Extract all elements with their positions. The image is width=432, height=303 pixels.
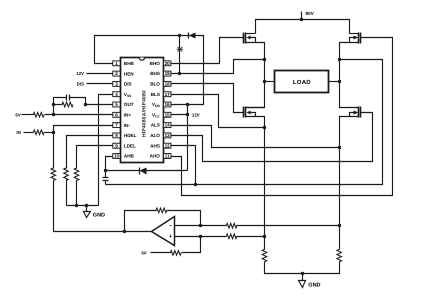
svg-text:5: 5: [115, 102, 118, 107]
wire ALS pin 14 to Q4 source: [171, 126, 340, 148]
pin 11 box: [164, 154, 171, 159]
wire BHO pin 20 to Q1 gate: [171, 38, 244, 64]
load box: [275, 71, 329, 93]
wire AHS net row to phase A: [106, 60, 383, 185]
svg-text:4: 4: [115, 92, 118, 97]
svg-text:6: 6: [115, 112, 118, 117]
wire cap branch right: [70, 98, 86, 105]
wire LDEL pin 9 to resistor: [77, 146, 113, 169]
wire Q2 source to phase A: [340, 43, 359, 108]
wire diode D2 anode to 12V: [147, 170, 188, 172]
wire LOAD right terminal: [330, 81, 340, 83]
node 6V/IN+ junction: [52, 113, 55, 116]
wire HDEL resistor to ground rail: [66, 181, 68, 206]
transistor Q1 (B high-side) body tie: [250, 38, 256, 43]
svg-text:HIP4080A/HIP4080: HIP4080A/HIP4080: [141, 90, 147, 137]
resistor R sense A (vertical): [337, 249, 342, 261]
node phase B / BHS tap: [263, 58, 266, 61]
pin 2 box: [113, 71, 120, 76]
wire IN resistor to node: [45, 132, 54, 134]
svg-text:80V: 80V: [306, 11, 315, 16]
wire bootstrap cap BHS: [179, 36, 181, 74]
node phase A / AHS tap: [338, 58, 341, 61]
pin 20 box: [164, 61, 171, 66]
wire LDEL resistor to ground rail: [76, 181, 78, 206]
pin 7 box: [113, 123, 120, 128]
svg-text:6V: 6V: [15, 112, 20, 117]
wire OUT row left segment: [54, 104, 63, 106]
node op-amp - tap: [338, 224, 341, 227]
wire 12V vertical: [187, 105, 189, 171]
pin 8 box: [113, 133, 120, 138]
wire minus input to sense A: [237, 225, 340, 227]
wire Q1 drain stub: [246, 33, 256, 35]
resistor R 6V ref: [170, 251, 181, 256]
pin 1 box: [113, 61, 120, 66]
node VDD/12V junction: [186, 103, 189, 106]
resistor R minus input: [226, 223, 237, 228]
svg-text:BHO: BHO: [150, 61, 161, 66]
svg-text:LDEL: LDEL: [124, 143, 136, 148]
svg-text:11: 11: [165, 154, 170, 159]
resistor R op-amp feedback: [156, 208, 167, 213]
wire 6V node to IN+ pin 6: [45, 114, 113, 116]
transistor Q1 (B high-side) channel bar: [245, 33, 247, 44]
resistor R HDEL delay (vertical): [64, 168, 69, 181]
svg-text:8: 8: [115, 133, 118, 138]
transistor Q2 (A high-side) gate bar: [360, 33, 362, 44]
svg-text:12V: 12V: [76, 71, 84, 76]
svg-text:HEN: HEN: [124, 71, 134, 76]
transistor Q2 (A high-side) body tie: [350, 38, 355, 43]
node plus input junction: [199, 235, 202, 238]
wire DIS to pin 3: [87, 83, 113, 85]
node ground stub junction: [85, 204, 88, 207]
pin 3 box: [113, 81, 120, 86]
transistor Q1 (B high-side) body arrow: [247, 36, 251, 40]
wire feedback resistor to op-amp output: [54, 181, 152, 232]
svg-text:15: 15: [165, 112, 171, 117]
node Q4 source / ALS tap: [338, 146, 341, 149]
diode D2 AHB bootstrap: [140, 168, 147, 175]
svg-text:1: 1: [115, 61, 118, 66]
wire diode D1 anode down to VDD pin 16: [171, 36, 204, 105]
pin 5 box: [113, 102, 120, 107]
wire Q2 drain stub: [350, 33, 359, 35]
wire LOAD left terminal: [265, 81, 275, 83]
resistor R IN series: [33, 130, 44, 135]
svg-text:17: 17: [165, 92, 171, 97]
wire BHS pin 19 to phase B: [171, 60, 265, 74]
wire 80V top rail: [256, 20, 350, 34]
svg-text:DIS: DIS: [77, 81, 84, 86]
node BHB/bootstrap junction: [178, 34, 181, 37]
wire 80V supply tick: [301, 12, 303, 20]
pin 15 box: [164, 112, 171, 117]
wire BLS pin 17 to Q3 source: [171, 95, 265, 128]
node VCC/12V junction: [186, 113, 189, 116]
svg-text:GND: GND: [308, 282, 320, 288]
wire 6V to resistor: [22, 114, 34, 116]
svg-text:19: 19: [165, 71, 171, 76]
wire Q3 drain stub (to phase B): [246, 107, 265, 109]
svg-text:2: 2: [115, 71, 118, 76]
ground symbol right: [299, 281, 306, 288]
wire 6V ref to resistor: [151, 252, 171, 254]
pin 18 box: [164, 81, 171, 86]
wire OUT pin 5 row: [86, 104, 113, 106]
wire BLO pin 18 to Q3 gate: [171, 84, 244, 113]
svg-text:IN: IN: [16, 130, 20, 135]
svg-text:BHB: BHB: [124, 61, 135, 66]
resistor R 6V bias: [33, 113, 44, 118]
svg-text:10: 10: [114, 154, 120, 159]
svg-text:13: 13: [165, 133, 171, 138]
svg-text:16: 16: [165, 102, 171, 107]
svg-text:12: 12: [165, 143, 171, 148]
resistor R sense B (vertical): [262, 249, 267, 261]
resistor R feedback (OUT row): [62, 102, 73, 107]
node 80V rail junction: [300, 18, 303, 21]
svg-text:BLO: BLO: [150, 82, 160, 87]
wire VCC pin 15 stub: [171, 114, 188, 116]
svg-text:ALS: ALS: [151, 123, 160, 128]
wire left ground rail: [67, 205, 99, 207]
capacitor C feedback plates: [67, 95, 70, 101]
wire OUT node to IN+ node: [53, 105, 55, 115]
svg-text:20: 20: [165, 61, 171, 66]
transistor Q2 (A high-side) channel bar: [358, 33, 360, 44]
resistor R LDEL delay (vertical): [74, 168, 79, 181]
op-amp U2 minus input mark: [170, 225, 172, 227]
svg-text:AHB: AHB: [124, 154, 135, 159]
wire op-amp feedback to minus input: [167, 211, 201, 226]
op-amp U2 triangle: [152, 217, 175, 246]
svg-text:DIS: DIS: [124, 82, 132, 87]
wire AHO pin 11 to Q2 gate: [171, 38, 393, 196]
wire Q1 source to phase B: [246, 43, 265, 108]
transistor Q4 (A low-side) channel bar: [358, 107, 360, 118]
node minus input junction: [199, 224, 202, 227]
wire right ground rail: [265, 262, 340, 274]
wire plus input to sense B: [237, 236, 265, 238]
capacitor C AHB bootstrap plates: [103, 178, 109, 181]
pin 12 box: [164, 143, 171, 148]
node IN- junction: [52, 131, 55, 134]
IC U1 top notch: [139, 58, 144, 61]
transistor Q3 (B low-side) body arrow: [247, 111, 251, 115]
transistor Q4 (A low-side) body tie: [350, 113, 355, 117]
svg-text:BHS: BHS: [150, 71, 160, 76]
pin 6 box: [113, 112, 120, 117]
node Q3 source / BLS tap: [263, 126, 266, 129]
pin 19 box: [164, 71, 171, 76]
wire op-amp feedback up: [125, 211, 157, 232]
wire AHB pin 10 to bootstrap node: [106, 157, 113, 171]
node AHB bootstrap junction: [104, 169, 107, 172]
wire IN node down to feedback resistor: [53, 133, 55, 169]
wire minus input row: [175, 225, 227, 227]
pin 9 box: [113, 143, 120, 148]
node phase A / LOAD tap: [338, 80, 341, 83]
svg-text:7: 7: [115, 123, 118, 128]
node op-amp + tap: [263, 235, 266, 238]
svg-text:14: 14: [165, 123, 171, 128]
svg-text:AHS: AHS: [150, 143, 160, 148]
svg-text:ALO: ALO: [150, 133, 160, 138]
wire Q4 source down to sense resistor: [340, 117, 359, 250]
wire IN to resistor: [24, 132, 34, 134]
transistor Q3 (B low-side) body tie: [250, 113, 256, 117]
node op-amp output junction: [123, 230, 126, 233]
wire HDEL pin 8 to resistor: [67, 136, 113, 169]
wire AHB node to diode cathode: [106, 170, 140, 172]
node bootstrap/BHS junction: [178, 72, 181, 75]
svg-text:9: 9: [115, 143, 118, 148]
resistor R plus input: [226, 234, 237, 239]
node phase B / LOAD tap: [263, 80, 266, 83]
wire AHB cap to AHS row: [105, 181, 107, 185]
wire 12V to HEN pin 2: [87, 73, 113, 75]
node right ground junction: [301, 272, 304, 275]
wire VSS pin 4 to ground rail: [99, 95, 113, 206]
transistor Q4 (A low-side) gate bar: [360, 107, 362, 118]
node OUT/R junction left: [52, 103, 55, 106]
wire AHB node to cap: [105, 171, 107, 178]
wire IN node up to IN- pin 7: [54, 126, 113, 133]
pin 4 box: [113, 92, 120, 97]
pin 14 box: [164, 123, 171, 128]
svg-text:18: 18: [165, 82, 171, 87]
wire ALO pin 13 to Q4 gate: [171, 113, 373, 162]
wire 6V ref to plus input: [182, 237, 201, 253]
svg-text:LOAD: LOAD: [293, 79, 311, 86]
diode D1 BHB bootstrap: [189, 33, 196, 39]
wire right ground stub: [302, 274, 304, 281]
wire plus input row: [175, 236, 227, 238]
svg-text:AHO: AHO: [150, 154, 161, 159]
svg-text:IN+: IN+: [124, 112, 132, 117]
resistor R current feedback (vertical): [51, 168, 56, 181]
pin 13 box: [164, 133, 171, 138]
wire BHB pin 1 loop over IC: [95, 36, 189, 64]
asterisk optional bootstrap cap marker: [177, 47, 183, 52]
svg-text:OUT: OUT: [124, 102, 134, 107]
transistor Q3 (B low-side) channel bar: [245, 107, 247, 118]
pin 16 box: [164, 102, 171, 107]
wire ground stub left: [86, 206, 88, 212]
IC U1 HIP4080A body: [121, 58, 164, 163]
wire AHS pin 12 down to AHS net: [171, 146, 196, 185]
svg-text:GND: GND: [93, 213, 105, 219]
pin 10 box: [113, 154, 120, 159]
svg-text:3: 3: [115, 82, 118, 87]
node LDEL/rail junction: [75, 204, 78, 207]
svg-text:IN-: IN-: [124, 123, 131, 128]
node OUT/R junction right: [84, 103, 87, 106]
op-amp U2 plus input mark: [170, 235, 172, 238]
pin 17 box: [164, 92, 171, 97]
transistor Q1 (B high-side) gate bar: [243, 33, 245, 44]
transistor Q3 (B low-side) gate bar: [243, 107, 245, 118]
ground symbol left: [84, 212, 91, 218]
node AHS net junction: [194, 183, 197, 186]
svg-text:6V: 6V: [141, 251, 146, 256]
transistor Q4 (A low-side) body arrow: [354, 111, 359, 115]
transistor Q2 (A high-side) body arrow: [354, 36, 359, 40]
svg-text:HDEL: HDEL: [124, 133, 137, 138]
wire Q3 source down to sense resistor: [246, 117, 265, 250]
svg-text:12V: 12V: [192, 112, 200, 117]
svg-text:BLS: BLS: [151, 92, 160, 97]
wire cap branch left: [54, 98, 67, 105]
